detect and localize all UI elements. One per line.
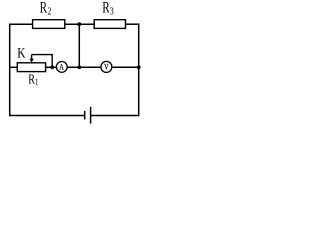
voltmeter V: [101, 61, 112, 72]
wire top middle segment: [64, 23, 95, 25]
wire from voltmeter to right border: [112, 66, 139, 68]
svg-text:V: V: [104, 62, 109, 72]
wire right border vertical: [138, 24, 140, 117]
wire from left border to rheostat R1: [9, 66, 18, 68]
slider arm K (wiper arrow and link wire): [17, 44, 52, 66]
wire top right segment: [125, 23, 140, 25]
wire bottom left segment: [9, 115, 84, 117]
node junction of slider link on meter wire: [50, 65, 54, 69]
wire from R1 right side to ammeter: [46, 66, 57, 68]
wire bottom right segment: [91, 115, 139, 117]
battery cell: [85, 107, 91, 124]
resistor R2: [33, 0, 65, 28]
wire left border vertical: [9, 24, 11, 117]
node junction on meter wire: [77, 65, 81, 69]
wire vertical from top junction down to meter wire: [78, 24, 80, 67]
rheostat R1: [17, 63, 45, 87]
svg-text:A: A: [59, 62, 64, 72]
ammeter A: [56, 62, 67, 73]
wire from ammeter to voltmeter: [67, 66, 101, 68]
node junction on right border: [137, 65, 141, 69]
node junction on top wire: [77, 22, 81, 26]
wire top left segment: [9, 23, 34, 25]
resistor R3: [94, 0, 125, 28]
svg-text:K: K: [17, 44, 26, 61]
